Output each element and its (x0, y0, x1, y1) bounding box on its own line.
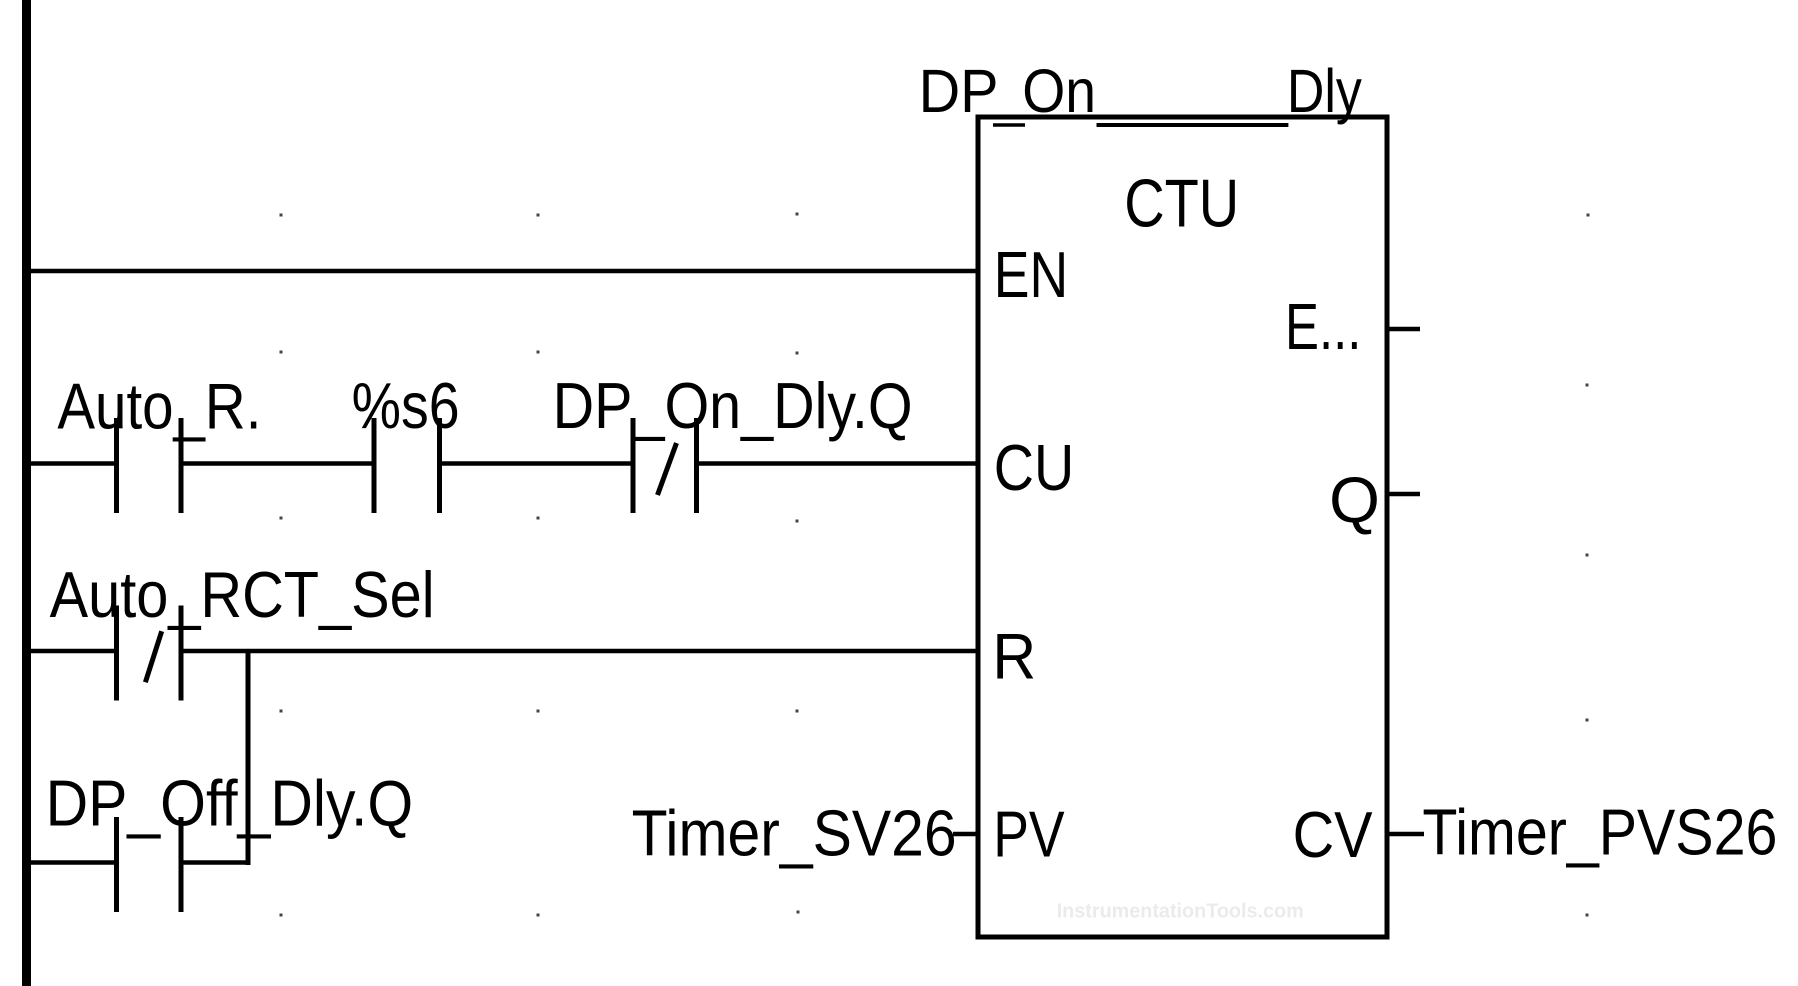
svg-text:DP_On_Dly.Q: DP_On_Dly.Q (553, 369, 913, 442)
svg-text:R: R (992, 620, 1036, 693)
svg-text:E...: E... (1285, 290, 1361, 363)
wire rung 2 to CU (699, 461, 978, 466)
contact Auto_RCT_Sel bar 2 (179, 606, 184, 701)
wire rung 3 to R (184, 649, 979, 654)
svg-text:InstrumentationTools.com: InstrumentationTools.com (1057, 901, 1304, 923)
svg-text:CV: CV (1293, 798, 1374, 871)
contact %s6 bar 1 (372, 418, 377, 513)
counter block U1 CTU body (978, 117, 1387, 937)
contact DP_On_Dly.Q bar 2 (694, 418, 699, 513)
pin stub E output (1389, 327, 1420, 332)
pin stub PV input (953, 832, 978, 837)
instance name underscore 1 (993, 123, 1025, 127)
svg-text:PV: PV (993, 798, 1065, 871)
wire contact %s6 to contact DP_On_Dly.Q (442, 461, 631, 466)
wire rung 3 rail to contact Auto_RCT_Sel (31, 649, 114, 654)
wire contact DP_Off_Dly.Q to junction (184, 860, 251, 865)
svg-text:Timer_SV26: Timer_SV26 (632, 797, 957, 870)
svg-text:Dly: Dly (1287, 57, 1362, 125)
junction wire rung 4 to rung 3 (246, 651, 251, 865)
svg-text:DP_Off_Dly.Q: DP_Off_Dly.Q (46, 767, 414, 840)
svg-text:CU: CU (994, 431, 1074, 504)
left power rail (22, 0, 31, 986)
contact %s6 bar 2 (437, 418, 442, 513)
contact Auto_RCT_Sel bar 1 (114, 606, 119, 701)
svg-text:Q: Q (1329, 463, 1380, 536)
contact DP_Off_Dly.Q bar 1 (114, 817, 119, 912)
svg-text:EN: EN (994, 238, 1068, 311)
pin stub CV output (1389, 832, 1424, 837)
wire rung 2 rail to contact Auto_R. (31, 461, 114, 466)
svg-text:CTU: CTU (1124, 166, 1239, 242)
contact DP_On_Dly.Q NC slash (658, 443, 677, 495)
svg-text:%s6: %s6 (352, 369, 460, 442)
pin stub Q output (1389, 492, 1420, 497)
contact Auto_R. bar 1 (114, 418, 119, 513)
svg-text:Auto_R.: Auto_R. (57, 370, 261, 443)
svg-text:Auto_RCT_Sel: Auto_RCT_Sel (50, 558, 435, 631)
wire contact Auto_R. to contact %s6 (184, 461, 372, 466)
contact DP_On_Dly.Q bar 1 (631, 418, 636, 513)
instance name underscore run (1097, 123, 1289, 127)
svg-text:Timer_PVS26: Timer_PVS26 (1422, 796, 1777, 869)
grid dots (280, 213, 1590, 917)
wire rung 1 to EN (31, 269, 978, 274)
wire rung 4 rail to contact DP_Off_Dly.Q (31, 860, 114, 865)
svg-text:DP: DP (919, 57, 999, 125)
contact Auto_R. bar 2 (179, 418, 184, 513)
contact DP_Off_Dly.Q bar 2 (179, 817, 184, 912)
svg-text:On: On (1022, 57, 1096, 125)
contact Auto_RCT_Sel NC slash (145, 631, 161, 682)
